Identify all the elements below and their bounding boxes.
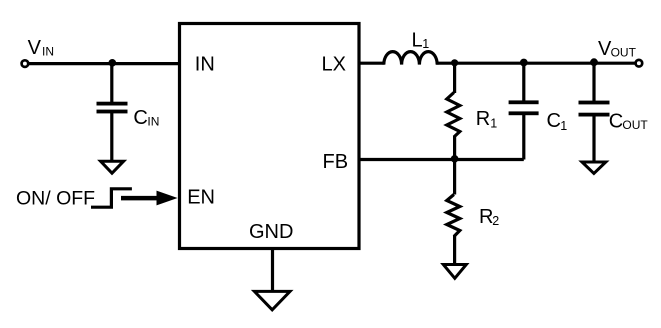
svg-text:2: 2 <box>492 214 499 228</box>
svg-text:ON/ OFF: ON/ OFF <box>16 187 95 209</box>
svg-text:C: C <box>547 110 561 132</box>
svg-text:IN: IN <box>195 53 215 75</box>
svg-text:R: R <box>479 206 493 228</box>
svg-text:C: C <box>609 110 623 132</box>
svg-text:V: V <box>28 37 42 59</box>
svg-text:1: 1 <box>560 119 567 133</box>
svg-text:C: C <box>133 107 147 129</box>
svg-text:IN: IN <box>42 45 54 59</box>
svg-text:R: R <box>476 108 490 130</box>
svg-text:1: 1 <box>490 117 497 131</box>
svg-text:L: L <box>412 29 423 51</box>
svg-text:LX: LX <box>322 53 346 75</box>
svg-text:IN: IN <box>147 115 159 129</box>
svg-text:EN: EN <box>187 187 215 209</box>
svg-text:OUT: OUT <box>622 118 648 132</box>
svg-text:GND: GND <box>249 221 293 243</box>
svg-text:OUT: OUT <box>611 46 637 60</box>
svg-text:FB: FB <box>323 151 349 173</box>
svg-text:1: 1 <box>422 37 429 51</box>
